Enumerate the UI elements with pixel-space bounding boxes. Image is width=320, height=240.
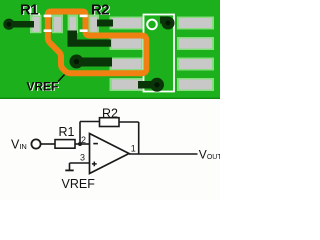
dark trace L below pad R2-1 horizontal to IC pad row 2 (68, 40, 112, 47)
dark trace stub pad R2-2 to IC pad 1 (97, 20, 113, 27)
wire feedback left vertical from node A (79, 122, 81, 145)
pad clearance halo R2 pad 2 (88, 15, 99, 34)
pad R2-2 (90, 17, 97, 32)
svg-text:R1: R1 (59, 125, 75, 139)
pad clearance halo R2 pad 1 (68, 15, 79, 34)
IC right pad halo row 2 (177, 37, 214, 50)
IC right pad halo row 4 (177, 78, 214, 91)
wire op-amp output to VOUT (129, 153, 198, 155)
IC left pad halo row 4 (110, 78, 143, 91)
wire op-amp pin 3 horizontal (70, 162, 90, 164)
via V4 inside IC top (162, 17, 175, 30)
IC right pad halo row 1 (177, 17, 214, 30)
IC right pad row 2 (179, 39, 212, 49)
silkscreen dash R2 top over trace (80, 15, 88, 18)
svg-text:R2: R2 (102, 107, 118, 121)
VIN input terminal circle (31, 139, 40, 148)
pad R1-1 (32, 17, 39, 32)
pad clearance halo R1 pad 2 (52, 15, 63, 34)
IC left pad halo row 2 (110, 37, 143, 50)
svg-text:VREF: VREF (62, 177, 96, 191)
pad R2-1 (70, 17, 76, 32)
wire VIN terminal to R1 (41, 143, 55, 145)
svg-text:R1: R1 (20, 2, 38, 19)
svg-text:1: 1 (131, 143, 136, 153)
op-amp inverting input minus sign (93, 143, 98, 145)
dark trace L below pad R2-1 vertical (68, 31, 78, 47)
node A junction dot (78, 142, 82, 146)
wire R2 to feedback right vertical (119, 121, 139, 123)
op-amp non-inverting input plus sign (92, 162, 97, 167)
via V4 inside IC top stub (160, 17, 168, 24)
IC silkscreen body outline U1 (144, 15, 175, 92)
via V4 drill hole (166, 21, 171, 26)
IC left pad row 2 (112, 39, 141, 49)
IC right pad halo row 3 (177, 58, 214, 71)
op-amp U1 triangle (90, 134, 130, 174)
dark trace stem via3 to IC pad row4 (138, 81, 156, 89)
IC left pad row 4 (112, 80, 141, 90)
VREF terminal bar (65, 170, 73, 172)
highlighted VREF net orange trace loop (48, 12, 147, 74)
via V3 inside IC bottom (150, 78, 164, 92)
via V2 drill hole (74, 59, 79, 64)
VREF leader line (58, 75, 65, 82)
silkscreen tick above pad R1-1 (33, 13, 40, 15)
wire feedback right vertical down to output (138, 122, 140, 154)
wire feedback top to R2 (80, 121, 100, 123)
resistor R2 body (100, 118, 120, 127)
IC left pad halo row 1 (110, 17, 143, 30)
IC right pad row 4 (179, 80, 212, 90)
svg-text:VREF: VREF (27, 80, 59, 94)
dark trace stem via2 to IC pad row3 (80, 58, 112, 67)
IC right pad row 1 (179, 18, 212, 28)
via V1 drill hole (7, 22, 12, 27)
wire R1 to op-amp pin 2 (75, 143, 90, 145)
silkscreen tick left of pad R1-1 (29, 8, 31, 13)
svg-text:R2: R2 (91, 2, 109, 19)
silkscreen dash R1 bottom over trace (44, 29, 52, 32)
IC left pad row 3 (112, 59, 141, 69)
PCB photo background (0, 0, 220, 99)
pad clearance halo R1 pad 1 (30, 15, 42, 34)
silkscreen dash R1 top over trace (44, 15, 52, 18)
wire pin 3 down to VREF terminal (69, 163, 71, 170)
IC left pad row 1 (112, 18, 141, 28)
schematic white background (0, 99, 220, 200)
PCB bottom edge shading (0, 98, 220, 99)
IC left pad halo row 3 (110, 58, 143, 71)
resistor R1 body (55, 140, 75, 149)
dark trace via1 to pad R1-1 (8, 21, 34, 28)
svg-text:2: 2 (81, 135, 86, 145)
silkscreen dash R2 bottom over trace (80, 29, 88, 32)
svg-text:3: 3 (80, 153, 85, 163)
via V3 drill hole (154, 82, 159, 87)
via V2 middle (70, 55, 84, 69)
IC silkscreen pin-1 marker circle (147, 20, 157, 30)
via V1 top-left (3, 19, 14, 30)
IC right pad row 3 (179, 59, 212, 69)
pad R1-2 (54, 17, 61, 32)
